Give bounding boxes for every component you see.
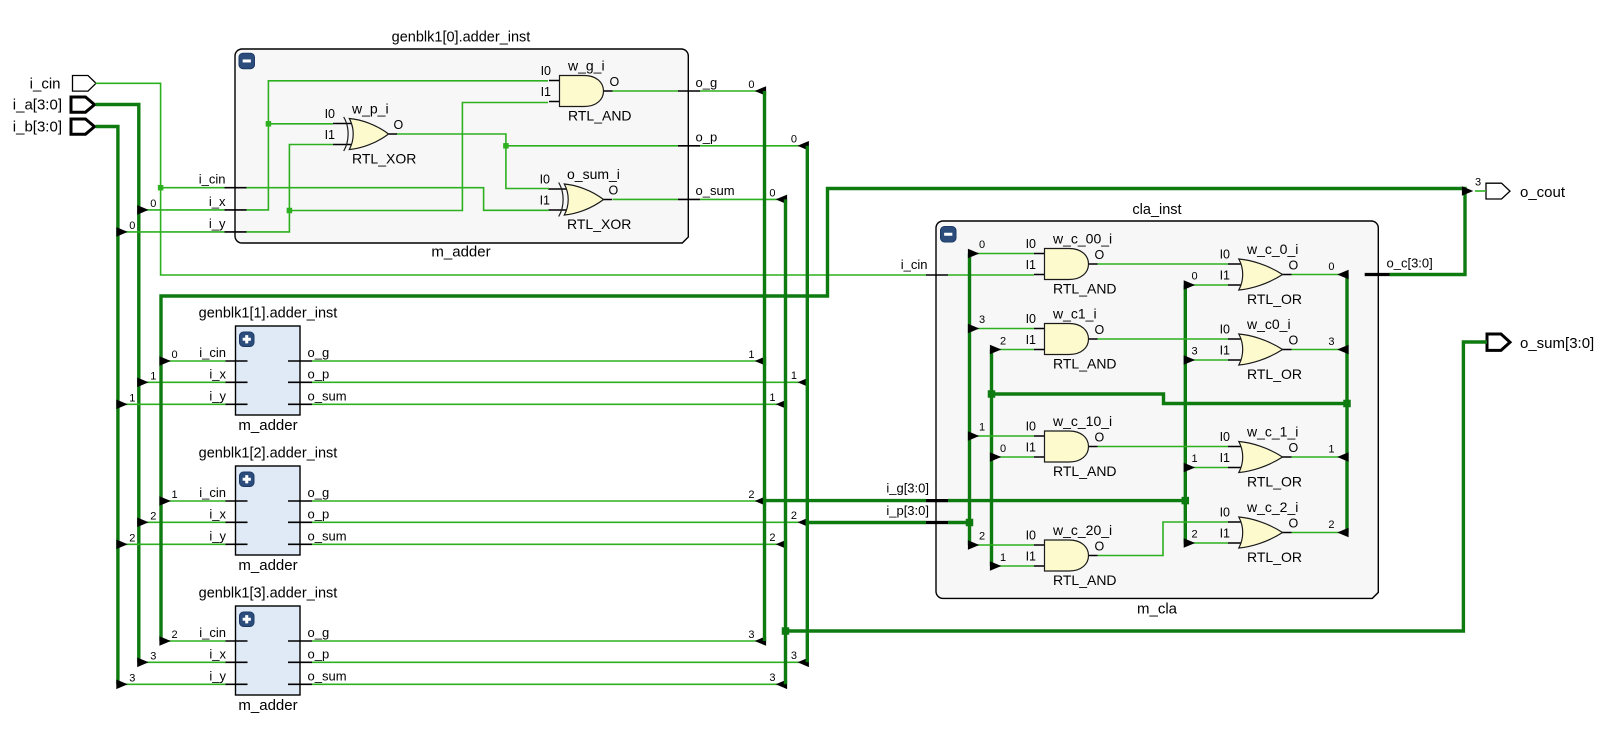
- svg-text:0: 0: [171, 349, 177, 361]
- svg-text:i_cin: i_cin: [199, 172, 226, 187]
- svg-text:1: 1: [1191, 453, 1197, 465]
- wire w_c_10 to w_c_1_i I0: [1098, 446, 1229, 448]
- pin stub i_p[3:0] cla: [926, 521, 948, 524]
- OR gate w_c_2_i: [1228, 517, 1292, 548]
- collapse button cla: [941, 227, 957, 243]
- svg-text:m_adder: m_adder: [431, 244, 490, 261]
- wire o_sum[3] to sum-bus: [312, 683, 785, 685]
- pin stub o_sum block0: [678, 198, 700, 200]
- pin stub i_y block1: [226, 403, 248, 405]
- pin stub o_p block2: [288, 521, 312, 523]
- junction o_sum takeoff: [782, 627, 790, 635]
- wire o_p[1] to p-bus: [312, 381, 807, 383]
- svg-text:I0: I0: [1220, 323, 1230, 337]
- arrowhead i_b[2]: [116, 540, 127, 550]
- output port o_cout: [1486, 183, 1510, 199]
- wire c[3] to c-bus: [1292, 349, 1347, 351]
- wire p[3] to AND I0: [971, 328, 1034, 330]
- arrowhead g[2]: [1184, 538, 1195, 548]
- svg-text:I0: I0: [1026, 312, 1036, 326]
- svg-text:O: O: [1289, 517, 1299, 531]
- junction feedback at c-bus: [1343, 400, 1351, 408]
- arrowhead o_g[0]: [755, 86, 766, 96]
- arrowhead o_sum[2]: [776, 540, 787, 550]
- XOR gate o_sum_i: [548, 183, 612, 217]
- arrowhead g[0]: [1184, 280, 1195, 290]
- svg-text:o_p: o_p: [308, 366, 330, 381]
- svg-text:m_cla: m_cla: [1137, 601, 1178, 618]
- svg-text:2: 2: [748, 489, 754, 501]
- bus sum collector: [784, 199, 787, 684]
- svg-text:genblk1[0].adder_inst: genblk1[0].adder_inst: [392, 30, 531, 46]
- bus i_a[3:0]: [96, 105, 139, 663]
- collapse button block0: [239, 53, 255, 68]
- svg-text:1: 1: [150, 370, 156, 382]
- arrowhead i_a[3]: [137, 658, 148, 668]
- bus i_p[3:0] feed: [807, 521, 926, 524]
- wire i_b[3] tap to i_y: [119, 683, 226, 685]
- wire i_a[2] tap to i_x: [140, 521, 226, 523]
- svg-text:w_c_00_i: w_c_00_i: [1052, 231, 1112, 247]
- arrowhead o_c[1]: [159, 496, 170, 506]
- svg-text:i_p[3:0]: i_p[3:0]: [886, 503, 929, 518]
- svg-text:3: 3: [791, 650, 797, 662]
- svg-text:o_sum: o_sum: [308, 388, 347, 403]
- OR gate w_c_0_i: [1228, 259, 1292, 290]
- svg-text:RTL_XOR: RTL_XOR: [567, 216, 631, 232]
- pin stub i_x block1: [226, 381, 248, 383]
- svg-text:I1: I1: [1220, 344, 1230, 358]
- wire o_sum[0] to sum-bus: [700, 198, 785, 200]
- cla g-bus vertical: [1184, 285, 1187, 544]
- svg-text:0: 0: [791, 134, 797, 146]
- arrowhead i_a[0]: [137, 205, 148, 215]
- pin stub o_sum block1: [288, 403, 312, 405]
- collapsed block genblk1[1].adder_inst (m_adder): [236, 326, 301, 415]
- wire c[0] feedback to AND I1: [993, 456, 1034, 458]
- expand button block2: [240, 472, 255, 487]
- svg-text:2: 2: [1000, 336, 1006, 348]
- svg-text:w_c1_i: w_c1_i: [1052, 306, 1097, 322]
- svg-text:w_c0_i: w_c0_i: [1246, 316, 1291, 332]
- arrowhead g[1]: [1184, 463, 1195, 473]
- wire g[2] to OR I1: [1187, 542, 1228, 544]
- arrowhead c[2] feedback: [990, 345, 1001, 355]
- svg-text:0: 0: [1328, 261, 1334, 273]
- svg-text:3: 3: [748, 629, 754, 641]
- svg-text:w_c_10_i: w_c_10_i: [1052, 413, 1112, 429]
- bus g collector: [763, 91, 766, 641]
- arrowhead o_sum[0]: [776, 195, 787, 205]
- svg-text:o_sum_i: o_sum_i: [567, 166, 620, 182]
- svg-text:o_cout: o_cout: [1520, 184, 1566, 201]
- svg-text:1: 1: [791, 370, 797, 382]
- svg-text:2: 2: [791, 510, 797, 522]
- svg-text:o_g: o_g: [308, 625, 330, 640]
- svg-text:3: 3: [1328, 336, 1334, 348]
- svg-text:o_g: o_g: [696, 75, 718, 90]
- collapsed block genblk1[2].adder_inst (m_adder): [236, 466, 301, 555]
- AND gate w_c_20_i: [1034, 540, 1098, 571]
- svg-text:i_g[3:0]: i_g[3:0]: [886, 480, 929, 495]
- collapsed block genblk1[3].adder_inst (m_adder): [236, 606, 301, 695]
- svg-text:i_cin: i_cin: [199, 625, 226, 640]
- cla c-bus vertical: [1345, 275, 1348, 534]
- wire g[3] to OR I1: [1187, 359, 1228, 361]
- svg-text:2: 2: [129, 532, 135, 544]
- bus o_c[3:0] feedback loop: [161, 189, 1465, 642]
- svg-text:2: 2: [150, 510, 156, 522]
- pin stub i_y block3: [226, 683, 248, 685]
- wire i_x riser to w_g_i I0: [247, 81, 549, 210]
- svg-text:RTL_OR: RTL_OR: [1247, 549, 1302, 565]
- pin stub o_p block3: [288, 661, 312, 663]
- pin stub i_cin block3: [226, 640, 248, 642]
- wire p[2] to AND I0: [971, 544, 1034, 546]
- svg-text:1: 1: [171, 489, 177, 501]
- svg-text:2: 2: [1328, 519, 1334, 531]
- svg-text:I0: I0: [541, 64, 551, 78]
- wire w_p to o_sum_i I0: [397, 134, 549, 189]
- arrowhead p[0]: [968, 249, 979, 259]
- wire w_c_00 to w_c_0_i I0: [1098, 263, 1229, 265]
- wire w_g to o_g pin: [613, 90, 679, 92]
- arrowhead p[3]: [968, 324, 979, 334]
- svg-text:genblk1[2].adder_inst: genblk1[2].adder_inst: [199, 446, 338, 462]
- svg-text:I1: I1: [1026, 258, 1036, 272]
- svg-text:I0: I0: [325, 107, 335, 121]
- svg-text:I0: I0: [1220, 506, 1230, 520]
- svg-text:RTL_AND: RTL_AND: [1053, 356, 1117, 372]
- svg-text:0: 0: [1000, 443, 1006, 455]
- svg-text:RTL_AND: RTL_AND: [568, 108, 632, 124]
- svg-text:w_c_1_i: w_c_1_i: [1246, 424, 1298, 440]
- svg-text:o_sum[3:0]: o_sum[3:0]: [1520, 335, 1594, 352]
- cla carry feedback vertical: [990, 350, 993, 567]
- junction w_p branch: [503, 143, 509, 149]
- junction i_cin branch: [158, 185, 164, 191]
- pin stub i_y block0: [225, 231, 247, 233]
- wire o_p[0] to p-bus: [700, 145, 807, 147]
- wire i_y riser to w_p_i I1: [247, 145, 334, 232]
- svg-text:3: 3: [1475, 177, 1481, 189]
- bus i_g[3:0] feed: [765, 499, 927, 502]
- svg-text:O: O: [1095, 540, 1105, 554]
- svg-text:m_adder: m_adder: [238, 557, 297, 574]
- svg-text:i_a[3:0]: i_a[3:0]: [13, 97, 62, 114]
- arrowhead c[0]: [1337, 270, 1348, 280]
- svg-text:I1: I1: [1220, 527, 1230, 541]
- wire p[0] to AND I0: [971, 253, 1034, 255]
- arrowhead o_g[3]: [755, 636, 766, 646]
- wire i_a[0] tap to i_x: [140, 209, 225, 211]
- svg-text:i_x: i_x: [209, 366, 226, 381]
- wire o_c[0] to i_cin block: [163, 360, 226, 362]
- svg-text:I1: I1: [1026, 441, 1036, 455]
- svg-text:genblk1[3].adder_inst: genblk1[3].adder_inst: [199, 586, 338, 602]
- svg-text:O: O: [1095, 323, 1105, 337]
- wire g[1] to OR I1: [1187, 467, 1228, 469]
- svg-text:0: 0: [979, 239, 985, 251]
- wire i_b[0] tap to i_y: [119, 231, 225, 233]
- svg-text:o_sum: o_sum: [308, 528, 347, 543]
- arrowhead o_p[3]: [798, 658, 809, 668]
- bus i_p[3:0] inside cla: [948, 521, 970, 524]
- wire o_g[3] to g-bus: [312, 640, 764, 642]
- AND gate w_c_10_i: [1034, 431, 1098, 462]
- svg-text:i_x: i_x: [209, 646, 226, 661]
- svg-text:RTL_AND: RTL_AND: [1053, 281, 1117, 297]
- svg-text:2: 2: [979, 531, 985, 543]
- pin stub o_c[3:0] cla: [1365, 273, 1390, 276]
- svg-text:2: 2: [171, 629, 177, 641]
- arrowhead i_b[3]: [116, 680, 127, 690]
- svg-text:O: O: [1095, 431, 1105, 445]
- wire o_p[3] to p-bus: [312, 661, 807, 663]
- arrowhead c[0] feedback: [990, 452, 1001, 462]
- wire c[2] feedback to AND I1: [993, 349, 1034, 351]
- svg-text:i_cin: i_cin: [901, 257, 928, 272]
- svg-text:0: 0: [748, 79, 754, 91]
- wire w_p branch to o_p pin: [506, 145, 678, 147]
- arrowhead c[1] feedback: [990, 561, 1001, 571]
- svg-text:1: 1: [979, 422, 985, 434]
- wire i_b[2] tap to i_y: [119, 543, 226, 545]
- wire o_c[1] to i_cin block: [163, 500, 226, 502]
- svg-text:i_b[3:0]: i_b[3:0]: [13, 119, 62, 136]
- svg-text:I1: I1: [541, 85, 551, 99]
- junction i_y branch: [287, 208, 293, 214]
- svg-text:o_p: o_p: [308, 506, 330, 521]
- wire c[2] to c-bus: [1292, 532, 1347, 534]
- svg-text:m_adder: m_adder: [238, 697, 297, 714]
- input port i_b[3:0]: [71, 119, 95, 134]
- svg-text:i_y: i_y: [209, 528, 226, 543]
- svg-text:O: O: [1095, 248, 1105, 262]
- svg-text:O: O: [1289, 441, 1299, 455]
- arrowhead o_g[1]: [755, 356, 766, 366]
- svg-text:1: 1: [769, 392, 775, 404]
- wire o_sum[2] to sum-bus: [312, 543, 785, 545]
- wire o_sum[1] to sum-bus: [312, 403, 785, 405]
- svg-text:o_g: o_g: [308, 345, 330, 360]
- svg-text:RTL_XOR: RTL_XOR: [352, 151, 416, 167]
- svg-text:O: O: [1289, 259, 1299, 273]
- input port i_cin: [73, 76, 97, 92]
- svg-text:RTL_OR: RTL_OR: [1247, 291, 1302, 307]
- svg-text:I1: I1: [1026, 550, 1036, 564]
- wire g[0] to OR I1: [1187, 284, 1228, 286]
- cla carry feedback horizontal: [992, 394, 1349, 404]
- wire o_p[2] to p-bus: [312, 521, 807, 523]
- wire c[0] to c-bus: [1292, 274, 1347, 276]
- wire o_c[2] to i_cin block: [163, 640, 226, 642]
- svg-text:i_cin: i_cin: [199, 345, 226, 360]
- svg-text:i_y: i_y: [209, 216, 226, 231]
- svg-text:i_y: i_y: [209, 668, 226, 683]
- svg-text:I1: I1: [1220, 269, 1230, 283]
- svg-text:o_g: o_g: [308, 485, 330, 500]
- output port o_sum[3:0]: [1487, 334, 1510, 350]
- AND gate w_c_00_i: [1034, 249, 1098, 280]
- svg-text:w_p_i: w_p_i: [351, 101, 389, 117]
- svg-text:3: 3: [150, 650, 156, 662]
- pin stub i_g[3:0] cla: [926, 499, 948, 502]
- svg-text:w_c_2_i: w_c_2_i: [1246, 499, 1298, 515]
- svg-text:m_adder: m_adder: [238, 417, 297, 434]
- arrowhead o_c[2]: [159, 636, 170, 646]
- arrowhead o_sum[1]: [776, 400, 787, 410]
- input port i_a[3:0]: [71, 97, 95, 112]
- wire i_b[1] tap to i_y: [119, 403, 226, 405]
- wire o_g[1] to g-bus: [312, 360, 764, 362]
- arrowhead g[3]: [1184, 355, 1195, 365]
- svg-text:0: 0: [769, 187, 775, 199]
- svg-text:3: 3: [769, 672, 775, 684]
- svg-text:I0: I0: [1026, 237, 1036, 251]
- pin stub i_y block2: [226, 543, 248, 545]
- svg-text:i_cin: i_cin: [199, 485, 226, 500]
- AND gate w_g_i: [549, 76, 613, 107]
- svg-text:I1: I1: [540, 194, 550, 208]
- arrowhead c[2]: [1337, 528, 1348, 538]
- svg-text:1: 1: [748, 349, 754, 361]
- arrowhead o_c[0]: [159, 356, 170, 366]
- hierarchical block cla_inst (m_cla expanded): [936, 221, 1378, 598]
- svg-text:I1: I1: [325, 128, 335, 142]
- wire i_cin branch to block0: [161, 187, 225, 189]
- svg-text:O: O: [609, 184, 619, 198]
- arrowhead i_a[2]: [137, 518, 148, 528]
- wire o_sum_i O to o_sum pin: [613, 198, 679, 200]
- wire i_x branch to w_p_i I0: [268, 123, 333, 125]
- bus i_b[3:0]: [96, 127, 118, 685]
- svg-text:w_c_0_i: w_c_0_i: [1246, 241, 1298, 257]
- svg-text:genblk1[1].adder_inst: genblk1[1].adder_inst: [199, 306, 338, 322]
- bus i_g[3:0] inside cla: [948, 499, 1185, 502]
- svg-text:i_cin: i_cin: [30, 76, 61, 93]
- svg-text:I0: I0: [1220, 430, 1230, 444]
- svg-text:0: 0: [1191, 271, 1197, 283]
- svg-text:1: 1: [1328, 444, 1334, 456]
- wire i_y branch to w_g_i I1: [289, 103, 548, 211]
- pin stub i_x block0: [225, 209, 247, 211]
- wire c[1] to c-bus: [1292, 456, 1347, 458]
- svg-text:RTL_OR: RTL_OR: [1247, 474, 1302, 490]
- svg-text:O: O: [1289, 334, 1299, 348]
- pin stub o_sum block2: [288, 543, 312, 545]
- pin stub i_cin cla: [926, 274, 948, 276]
- wire o_g[2] to g-bus: [312, 500, 764, 502]
- pin stub i_x block2: [226, 521, 248, 523]
- svg-text:O: O: [610, 75, 620, 89]
- wire w_c_20 to w_c_2_i I0: [1098, 522, 1229, 556]
- svg-text:cla_inst: cla_inst: [1132, 202, 1181, 218]
- arrowhead o_sum[3]: [776, 680, 787, 690]
- svg-text:o_sum: o_sum: [696, 183, 735, 198]
- OR gate w_c0_i: [1228, 334, 1292, 365]
- arrowhead i_b[1]: [116, 400, 127, 410]
- svg-text:I0: I0: [1026, 529, 1036, 543]
- svg-text:1: 1: [129, 392, 135, 404]
- arrowhead o_p[2]: [798, 518, 809, 528]
- wire i_a[3] tap to i_x: [140, 661, 226, 663]
- svg-text:w_g_i: w_g_i: [567, 58, 605, 74]
- pin stub o_p block0: [678, 145, 700, 147]
- svg-text:0: 0: [129, 220, 135, 232]
- svg-text:o_p: o_p: [308, 646, 330, 661]
- svg-text:I1: I1: [1220, 451, 1230, 465]
- arrowhead o_p[0]: [798, 141, 809, 151]
- svg-text:2: 2: [769, 532, 775, 544]
- svg-text:O: O: [394, 118, 404, 132]
- svg-text:I0: I0: [540, 173, 550, 187]
- wire i_cin from port to cla: [96, 83, 927, 275]
- pin stub o_sum block3: [288, 683, 312, 685]
- arrowhead i_a[1]: [137, 378, 148, 388]
- svg-text:I0: I0: [1026, 420, 1036, 434]
- svg-text:2: 2: [1191, 529, 1197, 541]
- svg-text:o_sum: o_sum: [308, 668, 347, 683]
- junction i_g / cla g-bus: [1182, 497, 1190, 505]
- svg-text:3: 3: [1191, 346, 1197, 358]
- arrowhead o_cout tap: [1462, 186, 1473, 196]
- svg-text:I1: I1: [1026, 333, 1036, 347]
- junction feedback vertical: [988, 390, 996, 398]
- svg-text:3: 3: [979, 314, 985, 326]
- hierarchical block genblk1[0].adder_inst (m_adder expanded): [235, 49, 688, 243]
- pin stub o_g block3: [288, 640, 312, 642]
- wire i_cin to o_sum_i I1: [247, 188, 550, 211]
- svg-text:i_y: i_y: [209, 388, 226, 403]
- arrowhead o_p[1]: [798, 378, 809, 388]
- arrowhead i_b[0]: [116, 227, 127, 237]
- svg-text:i_x: i_x: [209, 506, 226, 521]
- wire w_c1 to w_c0_i I0: [1098, 338, 1229, 340]
- svg-text:o_p: o_p: [696, 130, 718, 145]
- arrowhead p[2]: [968, 540, 979, 550]
- bus o_sum[3:0] to port: [786, 342, 1488, 631]
- arrowhead p[1]: [968, 431, 979, 441]
- expand button block1: [240, 332, 255, 347]
- wire c[1] feedback to AND I1: [993, 565, 1034, 567]
- pin stub i_cin block1: [226, 360, 248, 362]
- pin stub i_x block3: [226, 661, 248, 663]
- wire p[1] to AND I0: [971, 435, 1034, 437]
- pin stub o_g block2: [288, 500, 312, 502]
- pin stub o_g block0: [678, 90, 700, 92]
- svg-text:RTL_OR: RTL_OR: [1247, 366, 1302, 382]
- svg-text:RTL_AND: RTL_AND: [1053, 463, 1117, 479]
- XOR gate w_p_i: [333, 117, 397, 151]
- svg-text:0: 0: [150, 198, 156, 210]
- pin stub o_g block1: [288, 360, 312, 362]
- svg-text:3: 3: [129, 672, 135, 684]
- svg-text:o_c[3:0]: o_c[3:0]: [1387, 255, 1433, 270]
- svg-text:1: 1: [1000, 552, 1006, 564]
- arrowhead o_g[2]: [755, 496, 766, 506]
- expand button block3: [240, 612, 255, 627]
- svg-text:w_c_20_i: w_c_20_i: [1052, 522, 1112, 538]
- cla p-bus vertical: [968, 254, 971, 546]
- wire i_cin inside cla to w_c_00_i I1: [948, 274, 1034, 276]
- wire o_g[0] to g-bus: [700, 90, 764, 92]
- arrowhead c[1]: [1337, 452, 1348, 462]
- svg-text:RTL_AND: RTL_AND: [1053, 572, 1117, 588]
- bus p collector: [806, 146, 809, 663]
- pin stub i_cin block0: [225, 187, 247, 189]
- AND gate w_c1_i: [1034, 324, 1098, 355]
